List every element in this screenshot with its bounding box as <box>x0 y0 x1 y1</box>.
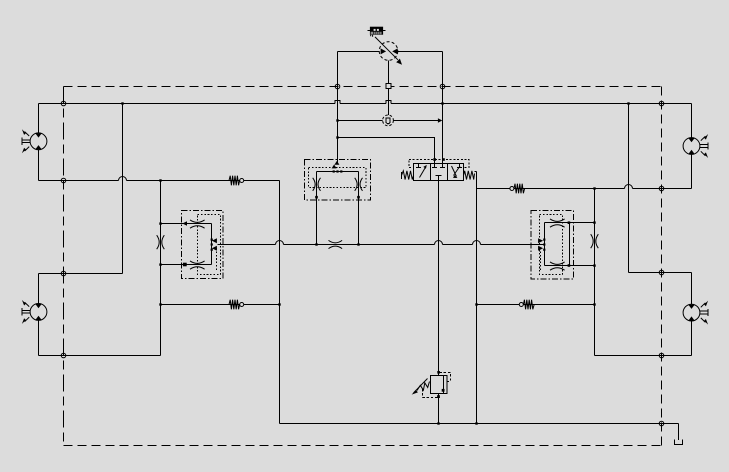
wire right bottom motor feed <box>691 273 693 305</box>
orifice )( on x594.5 <box>591 234 599 248</box>
valve right square arrows <box>457 164 462 168</box>
FD1 body right edge <box>211 224 213 265</box>
motor M2 bottom-left <box>22 300 47 324</box>
spring on right line y303 <box>519 300 534 310</box>
hop arc at 279.5 on y244 <box>276 241 284 245</box>
wire right vertical x476.5 from valve spring <box>476 172 478 424</box>
wire valve bottom drop x438.5 <box>438 181 440 376</box>
check valve blob at (388,120.4) <box>383 115 394 126</box>
wire right top motor return <box>691 154 693 188</box>
wire right bottom line y355 <box>595 355 692 357</box>
arrowhead into valve feed at (442.5,120.5) <box>438 118 442 122</box>
valve body 3 squares <box>414 164 464 181</box>
junction ring at (63.5,103.5) <box>61 101 66 106</box>
pump U1 variable displacement <box>368 27 403 65</box>
wire left top motor return <box>38 150 40 181</box>
FD2 input chevrons <box>538 238 543 243</box>
junction ring at (63.5,180.5) <box>61 178 66 183</box>
wire bottom line y423 <box>280 423 679 425</box>
valve left square arrow <box>416 164 421 168</box>
motor M3 top-right <box>683 134 708 158</box>
FD1 outer dash-dot box <box>182 211 224 279</box>
wire tank drop <box>678 424 680 441</box>
hop arc at 122.5 on y180 <box>119 177 127 181</box>
junction ring at (442.5,86.5) <box>440 84 445 89</box>
wire branch y137 to valve <box>338 138 435 164</box>
wire right line y188 with hop at 628.5 <box>477 188 692 190</box>
venturi on main line at (335.3,244.5) <box>329 240 343 248</box>
orifice )( on x160.5 <box>157 235 165 249</box>
valve right spring with bracket <box>464 171 477 180</box>
motor M4 bottom-right <box>683 301 708 325</box>
FD2 inner dotted box <box>540 215 563 275</box>
FD3 left venturi <box>313 178 321 191</box>
wire pump top line <box>338 51 443 53</box>
FD2 outer dash-dot box <box>531 211 574 280</box>
FD3 top line <box>317 171 359 173</box>
spring on left line y304 <box>229 300 244 310</box>
right flow divider FD2 <box>531 211 574 280</box>
directional valve V1 <box>402 160 477 181</box>
wire main upper bus Y1 with square hops at 337.5 and 388.5 <box>39 103 692 105</box>
junction ring at (63.5,273.5) <box>61 271 66 276</box>
junction ring at (661.5,355.5) <box>659 353 664 358</box>
junction ring at (661.5,188.5) <box>659 186 664 191</box>
wire pump right vertical to valve <box>442 52 444 164</box>
FD1 bottom line square <box>183 263 187 267</box>
wire left divider bottom link y264 <box>161 264 212 266</box>
drain line top (dashed) <box>64 86 662 88</box>
wire center manifold left drop <box>316 199 318 245</box>
drain line bottom (dashed) <box>64 445 662 447</box>
wire pump left vertical to center manifold <box>337 52 339 164</box>
wire left line y180 with hop at 122.5 <box>39 180 280 182</box>
wire right divider bottom link y265 <box>545 265 595 267</box>
wire left divider vertical x160.5 <box>160 181 162 356</box>
junction ring at (661.5,423.5) <box>659 421 664 426</box>
left flow divider FD1 <box>182 211 224 279</box>
wire right bottom motor top line y272 <box>629 272 692 274</box>
valve pilot dotted box <box>409 160 469 168</box>
FD3 right edge with drop <box>358 172 360 199</box>
hop square at 388.5 on Y1 <box>386 101 391 104</box>
relief valve RV1 <box>412 372 451 397</box>
motor M1 top-left <box>22 129 47 153</box>
wire left bottom motor feed <box>38 274 40 304</box>
FD1 top venturi <box>190 220 205 222</box>
relief pilot dashed right <box>440 372 451 381</box>
wire vertical x122.5 <box>122 104 124 274</box>
junction ring at (63.5,354.5) <box>61 353 66 358</box>
wire left top motor feed <box>38 104 40 134</box>
hop arc at 476.5 on y244 <box>473 241 481 245</box>
center flow divider FD3 <box>305 160 371 201</box>
FD3 bottom squares <box>315 196 318 199</box>
relief pilot dashed left-bottom <box>423 389 438 398</box>
relief spring (adjustable) <box>417 382 430 391</box>
wire right divider vertical x594.5 <box>594 189 596 356</box>
pump control box (hatched) <box>370 27 383 35</box>
junction ring at (337.5,86.5) <box>335 84 340 89</box>
valve bottom stub <box>436 176 442 181</box>
wire left divider top link y223 <box>161 223 212 225</box>
hop square at 337.5 on Y1 <box>335 101 340 104</box>
wire vertical x279.5 with pass-through <box>279 181 281 424</box>
drain line right (dashed) <box>661 87 663 446</box>
FD2 body edges <box>545 223 570 266</box>
FD2 bottom venturi <box>550 262 565 264</box>
valve entry stubs <box>432 160 445 168</box>
FD1 inner dotted box <box>198 215 221 275</box>
wire right divider top link y222 <box>545 222 595 224</box>
spring on left line y180 <box>229 176 244 186</box>
hop arc at 628.5 on y188 <box>625 185 633 189</box>
wire center manifold right drop <box>358 199 360 245</box>
hop arc at 438.5 on y244 <box>435 241 443 245</box>
FD1 bottom venturi <box>190 261 205 263</box>
FD3 left edge with drop <box>316 172 318 199</box>
junction ring at (661.5,103.5) <box>659 101 664 106</box>
junction ring at (661.5,272.5) <box>659 270 664 275</box>
wire gauge line y120 <box>338 120 439 122</box>
wire right top motor feed <box>691 104 693 138</box>
FD1 output chevrons <box>212 238 217 243</box>
wire relief to bottom <box>438 394 440 424</box>
FD3 entry chevrons <box>334 161 339 165</box>
wire left bottom motor top line y273 <box>39 273 123 275</box>
pump drop line through square <box>388 60 390 115</box>
wire vertical x628.5 <box>628 104 630 273</box>
wire left bottom motor return <box>38 320 40 355</box>
FD3 outer dash-dot box <box>305 160 371 201</box>
pilot square junction at (388.5,86.5) <box>386 83 391 88</box>
FD2 corner squares <box>568 221 571 224</box>
wire left spring line y304 <box>161 304 280 306</box>
valve left spring <box>402 171 414 180</box>
drain line left (dashed) <box>63 87 65 446</box>
FD1 top line arrow <box>182 221 187 225</box>
FD2 top venturi <box>550 219 565 221</box>
wire right bottom motor return <box>691 321 693 356</box>
tank symbol <box>675 440 683 445</box>
wire left bottom line y354 <box>39 355 161 357</box>
wire main center line y244 with hops at 279.5 438.5 476.5 <box>218 244 545 246</box>
FD3 inner dotted box <box>309 168 367 188</box>
spring on right line y188 <box>510 184 525 194</box>
wire right spring line y303 <box>477 304 595 306</box>
pump variable arrow diagonal <box>375 37 398 60</box>
FD3 right venturi <box>355 178 363 191</box>
